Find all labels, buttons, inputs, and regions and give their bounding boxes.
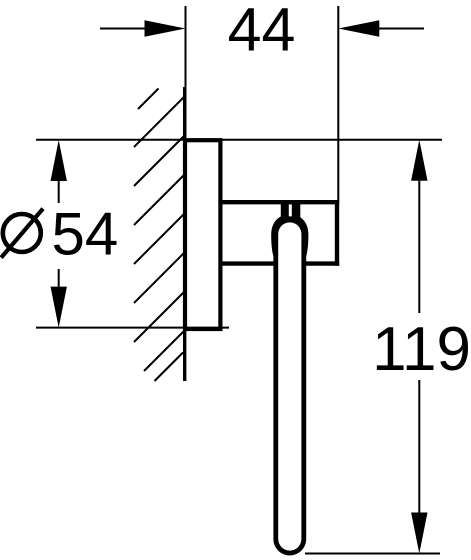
svg-text:119: 119 <box>372 315 471 384</box>
holder arm right edge <box>335 200 339 266</box>
svg-text:54: 54 <box>52 201 119 268</box>
dimension text 44 <box>228 0 296 64</box>
dimension text 119 <box>372 315 471 384</box>
bottom extension line of dim 54 <box>36 327 229 329</box>
dim line 54 lower segment with down arrow <box>51 269 67 328</box>
wall face line <box>183 87 186 381</box>
mounting plate (side view of Ø54 rosette) <box>185 140 220 329</box>
bottom extension line of dim 119 <box>305 553 440 555</box>
wall hatching <box>134 89 185 382</box>
holder arm top edge <box>219 200 340 204</box>
dim line 119 upper segment with up arrow <box>411 140 427 313</box>
dimension line 44 left with arrow <box>100 20 186 36</box>
paper holder ring (ball top + elongated loop) <box>271 216 308 555</box>
swivel pin <box>281 201 301 219</box>
extension line right of dim 44 <box>337 6 339 200</box>
extension line left of dim 44 <box>185 6 187 140</box>
holder arm bottom edge (gap where ring passes) <box>219 261 340 265</box>
dim line 54 upper segment with up arrow <box>51 140 67 203</box>
dim line 119 lower segment with down arrow <box>411 380 427 554</box>
svg-text:44: 44 <box>228 0 296 64</box>
top extension line (shared by dim 54 and dim 119) <box>36 139 442 141</box>
dimension line 44 right with arrow <box>338 20 424 36</box>
dimension text Ø 54 <box>1 201 118 268</box>
